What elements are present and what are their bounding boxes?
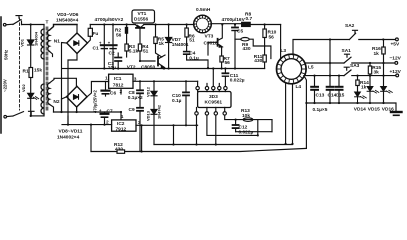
svg-text:0.7: 0.7 (246, 16, 253, 22)
svg-text:IC1: IC1 (114, 76, 122, 82)
svg-text:VD1: VD1 (20, 38, 25, 47)
svg-text:1N5408×4: 1N5408×4 (56, 17, 79, 23)
svg-text:KC9561: KC9561 (205, 100, 223, 106)
svg-text:SA1: SA1 (342, 48, 352, 54)
svg-text:7812: 7812 (113, 83, 124, 89)
svg-text:0.1µ×2: 0.1µ×2 (128, 95, 143, 101)
svg-text:3: 3 (134, 77, 137, 83)
svg-text:3k: 3k (374, 70, 380, 76)
svg-text:15k: 15k (34, 68, 42, 74)
svg-text:0.1µ: 0.1µ (189, 56, 199, 62)
svg-text:~220V: ~220V (3, 79, 8, 92)
svg-text:10k: 10k (242, 113, 250, 119)
svg-text:C1: C1 (93, 46, 99, 52)
svg-text:1N4742: 1N4742 (157, 104, 162, 119)
svg-text:C9: C9 (129, 107, 135, 113)
svg-text:−12V: −12V (390, 56, 402, 62)
svg-text:4700µ/50V×2: 4700µ/50V×2 (95, 17, 124, 23)
svg-text:IC2: IC2 (117, 121, 125, 127)
svg-text:C5: C5 (237, 29, 243, 35)
svg-text:C7: C7 (107, 109, 113, 115)
svg-text:T: T (46, 20, 49, 26)
svg-text:VD2: VD2 (21, 83, 26, 92)
svg-text:0.1µ×5: 0.1µ×5 (313, 107, 328, 113)
svg-text:1k: 1k (361, 85, 367, 91)
svg-text:C13: C13 (316, 93, 325, 99)
svg-text:VD3~VD6: VD3~VD6 (57, 12, 79, 18)
svg-text:0.5mH: 0.5mH (196, 7, 211, 13)
svg-text:51: 51 (189, 38, 195, 44)
svg-text:1k: 1k (374, 51, 380, 57)
svg-text:50Hz: 50Hz (4, 49, 9, 60)
svg-text:7912: 7912 (116, 127, 127, 133)
svg-text:VD14: VD14 (354, 107, 366, 113)
svg-text:L3: L3 (281, 48, 287, 54)
svg-text:56: 56 (225, 60, 231, 66)
svg-text:1: 1 (121, 114, 124, 120)
svg-text:R1: R1 (23, 69, 29, 75)
svg-text:N1: N1 (54, 39, 60, 45)
svg-text:C2: C2 (109, 51, 115, 57)
svg-text:VD16: VD16 (382, 107, 394, 113)
svg-text:+12V: +12V (390, 69, 402, 75)
svg-text:C15: C15 (336, 93, 345, 99)
svg-text:VD12: VD12 (146, 86, 151, 97)
svg-text:430: 430 (115, 147, 123, 153)
svg-text:VT1: VT1 (138, 11, 147, 17)
svg-text:SA2: SA2 (345, 23, 355, 29)
svg-text:2: 2 (120, 89, 123, 95)
svg-text:SA3: SA3 (350, 63, 360, 69)
svg-text:2: 2 (106, 120, 109, 126)
svg-text:0.022µ: 0.022µ (239, 130, 254, 136)
svg-text:1N4002×4: 1N4002×4 (57, 135, 80, 141)
svg-text:VD8~VD11: VD8~VD11 (59, 129, 83, 135)
svg-text:3: 3 (138, 120, 141, 126)
svg-text:56: 56 (269, 35, 275, 41)
svg-text:D1556: D1556 (134, 17, 148, 23)
svg-text:5.1k: 5.1k (129, 49, 139, 55)
svg-text:1N4001: 1N4001 (172, 42, 189, 48)
svg-text:0.1µ: 0.1µ (172, 98, 182, 104)
svg-text:C6: C6 (110, 91, 116, 97)
svg-text:L4: L4 (296, 84, 302, 90)
svg-text:430: 430 (243, 46, 251, 52)
svg-text:3D3: 3D3 (209, 94, 218, 100)
svg-text:L5: L5 (308, 65, 314, 71)
svg-text:1N4004: 1N4004 (34, 31, 39, 46)
svg-text:VD13: VD13 (146, 110, 151, 121)
svg-text:0.022µ: 0.022µ (230, 78, 245, 84)
svg-text:Fu: Fu (93, 31, 99, 37)
svg-text:1: 1 (105, 76, 108, 82)
svg-text:+5V: +5V (391, 42, 400, 48)
svg-text:C9018: C9018 (204, 41, 218, 47)
svg-text:4700µ/16V: 4700µ/16V (222, 17, 246, 23)
svg-text:1k: 1k (159, 41, 165, 47)
svg-text:C8050: C8050 (141, 65, 155, 71)
svg-text:VD15: VD15 (368, 107, 380, 113)
svg-text:56: 56 (116, 33, 122, 39)
svg-text:430: 430 (254, 58, 262, 64)
svg-text:VT2: VT2 (127, 65, 136, 71)
svg-text:10µ: 10µ (108, 65, 116, 71)
svg-text:VT3: VT3 (205, 34, 214, 40)
svg-text:51: 51 (143, 49, 149, 55)
svg-text:N2: N2 (53, 99, 59, 105)
svg-text:470µ/25V×2: 470µ/25V×2 (93, 90, 98, 113)
